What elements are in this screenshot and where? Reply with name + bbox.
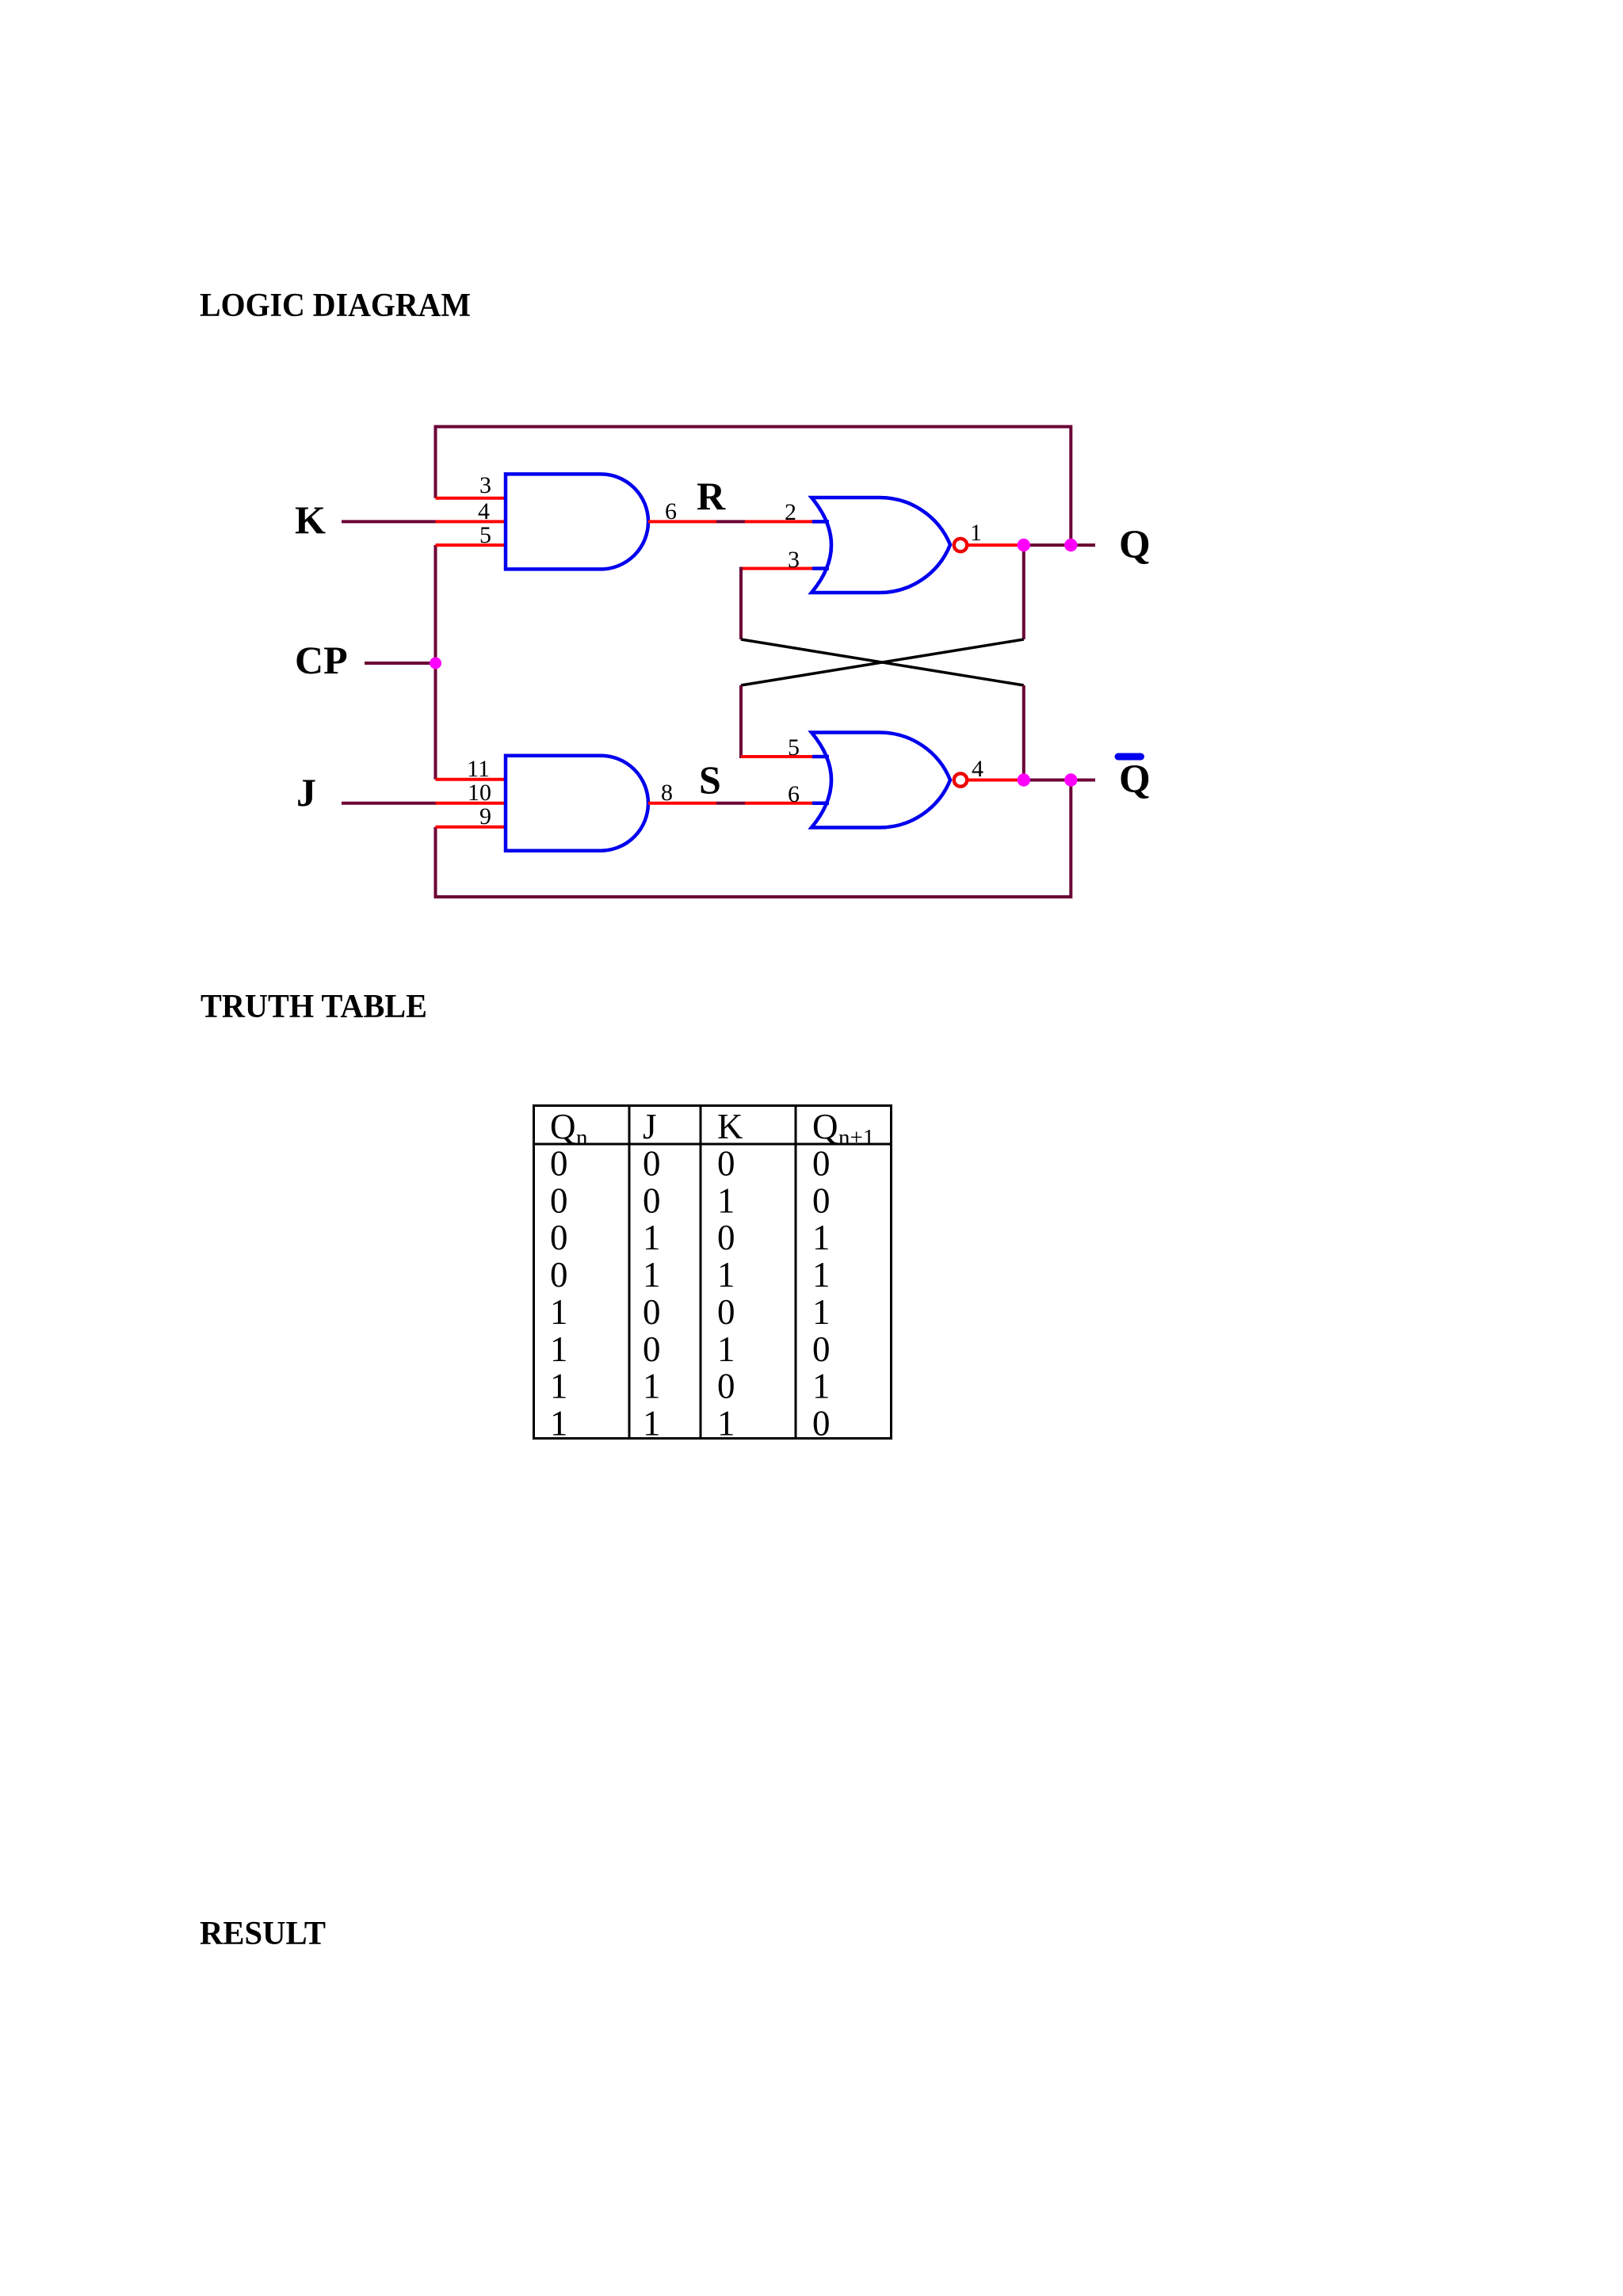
wire bottom feedback rail (Qbar node down and across to AND2 pin 9) [436, 780, 1071, 898]
svg-text:J: J [296, 770, 316, 814]
svg-text:1: 1 [550, 1404, 568, 1444]
label Qbar overbar [1118, 753, 1141, 761]
junction dot Q b [1064, 539, 1077, 551]
svg-text:1: 1 [812, 1367, 831, 1406]
svg-text:1: 1 [550, 1329, 568, 1369]
wire top feedback rail (Q node up and across to AND1 pin 3) [436, 427, 1071, 546]
svg-text:1: 1 [717, 1180, 735, 1220]
junction dot Qbar a [1018, 773, 1030, 786]
truth table outer border [534, 1106, 892, 1439]
svg-text:0: 0 [717, 1218, 735, 1257]
svg-text:0: 0 [717, 1292, 735, 1332]
truth table header divider [534, 1143, 892, 1146]
svg-text:3: 3 [479, 472, 491, 498]
and-gate U2 (J AND CP) [506, 756, 648, 851]
pin stub red AND2 pin 10 [436, 802, 507, 805]
bubble NOR1 output [954, 539, 967, 551]
bubble NOR2 output [954, 773, 967, 786]
svg-text:5: 5 [479, 522, 491, 548]
blue pin stub NOR1 pin 3 [812, 566, 829, 570]
svg-text:1: 1 [550, 1292, 568, 1332]
svg-text:0: 0 [643, 1144, 661, 1184]
blue pin stub NOR2 pin 5 [812, 755, 829, 759]
svg-text:CP: CP [295, 638, 348, 682]
svg-text:5: 5 [788, 734, 800, 761]
truth table column divider 1 [628, 1106, 631, 1439]
svg-text:n: n [576, 1125, 588, 1150]
wire J input [342, 802, 437, 805]
wire CP input [365, 662, 437, 665]
blue pin stub NOR1 pin 2 [812, 520, 829, 524]
svg-text:J: J [643, 1107, 657, 1146]
nor-gate U3 (R-S latch top, output Q) [811, 498, 950, 593]
pin stub red AND2 pin 11 [436, 778, 507, 781]
svg-text:0: 0 [550, 1180, 568, 1220]
svg-text:4: 4 [972, 756, 983, 782]
svg-text:RESULT: RESULT [200, 1916, 326, 1952]
svg-text:6: 6 [788, 781, 800, 807]
wire cross net: Qbar to NOR1 pin 3 (red stub, vertical, diagonal, vertical) [741, 567, 815, 570]
wire R net (AND1 out to NOR1 pin 2) [648, 520, 716, 523]
svg-text:1: 1 [812, 1255, 831, 1295]
pin stub red AND2 pin 9 [436, 826, 507, 829]
truth table column divider 2 [700, 1106, 702, 1439]
svg-text:0: 0 [643, 1292, 661, 1332]
svg-text:4: 4 [478, 498, 490, 524]
svg-text:1: 1 [550, 1367, 568, 1406]
svg-text:0: 0 [550, 1218, 568, 1257]
wire Qbar output dark [1024, 779, 1095, 782]
pin stub red AND1 pin 3 [436, 497, 507, 500]
wire K input [342, 520, 437, 523]
svg-text:2: 2 [785, 499, 796, 525]
wire S net (AND2 out to NOR2 pin 6) [648, 802, 716, 805]
svg-text:0: 0 [812, 1180, 831, 1220]
svg-text:1: 1 [812, 1218, 831, 1257]
junction CP [430, 658, 441, 669]
wire cross net: Q to NOR2 pin 5 (vertical, diagonal, vertical, red stub) [1022, 545, 1025, 639]
nor-gate U4 (R-S latch bottom, output Qbar) [811, 733, 950, 828]
junction dot Q a [1018, 539, 1030, 551]
svg-text:0: 0 [550, 1255, 568, 1295]
svg-text:1: 1 [970, 520, 982, 546]
blue pin stub NOR2 pin 6 [812, 801, 829, 805]
junction dot Qbar b [1064, 773, 1077, 786]
svg-text:n+1: n+1 [838, 1125, 874, 1150]
svg-text:9: 9 [479, 803, 491, 830]
svg-text:0: 0 [643, 1329, 661, 1369]
wire Q output dark [1024, 543, 1095, 547]
svg-text:Q: Q [1119, 523, 1151, 567]
wire Q output red [967, 543, 1024, 547]
svg-text:1: 1 [643, 1255, 661, 1295]
svg-text:1: 1 [717, 1404, 735, 1444]
svg-text:1: 1 [812, 1292, 831, 1332]
svg-text:K: K [295, 498, 326, 542]
svg-text:0: 0 [643, 1180, 661, 1220]
svg-text:R: R [697, 474, 726, 518]
svg-text:LOGIC DIAGRAM: LOGIC DIAGRAM [200, 288, 471, 324]
svg-text:0: 0 [717, 1367, 735, 1406]
svg-text:TRUTH TABLE: TRUTH TABLE [200, 989, 427, 1025]
svg-text:1: 1 [643, 1218, 661, 1257]
svg-text:0: 0 [717, 1144, 735, 1184]
svg-text:1: 1 [717, 1329, 735, 1369]
svg-text:0: 0 [812, 1404, 831, 1444]
svg-text:0: 0 [812, 1144, 831, 1184]
wire CP vertical (pin5 to pin11) [434, 545, 437, 780]
svg-text:1: 1 [643, 1367, 661, 1406]
svg-text:1: 1 [643, 1404, 661, 1444]
svg-text:1: 1 [717, 1255, 735, 1295]
wire Qbar output red [967, 779, 1024, 782]
svg-text:Q: Q [550, 1107, 576, 1146]
pin stub red AND1 pin 5 [436, 543, 507, 547]
svg-text:K: K [717, 1107, 743, 1146]
svg-text:S: S [699, 757, 721, 802]
svg-text:3: 3 [788, 547, 800, 573]
and-gate U1 (K AND CP) [506, 474, 648, 569]
svg-text:10: 10 [468, 780, 491, 806]
svg-text:0: 0 [812, 1329, 831, 1369]
svg-text:Q: Q [1119, 757, 1151, 802]
truth table column divider 3 [795, 1106, 797, 1439]
pin stub red AND1 pin 4 [436, 520, 507, 523]
svg-text:Q: Q [812, 1107, 838, 1146]
svg-text:0: 0 [550, 1144, 568, 1184]
svg-text:11: 11 [467, 756, 490, 782]
